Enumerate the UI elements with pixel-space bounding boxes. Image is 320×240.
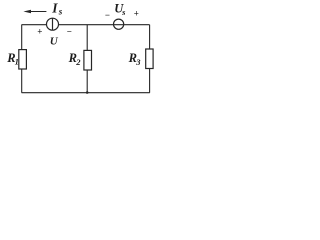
label R1 bbox=[6, 51, 19, 66]
label U (voltage across current source) bbox=[50, 36, 59, 48]
svg-text:s: s bbox=[58, 7, 63, 17]
wire bottom bbox=[22, 92, 150, 94]
label Us bbox=[114, 1, 126, 16]
current source Is circle bbox=[47, 18, 59, 30]
label + right of Us bbox=[134, 9, 139, 19]
current direction arrow for Is bbox=[23, 10, 46, 14]
svg-text:s: s bbox=[121, 7, 126, 17]
svg-text:−: − bbox=[105, 10, 110, 20]
label Is bbox=[51, 1, 63, 17]
label - left of Us bbox=[105, 10, 110, 20]
voltage source Us circle bbox=[114, 19, 124, 29]
label R2 bbox=[68, 51, 82, 67]
svg-text:3: 3 bbox=[135, 57, 141, 67]
label R3 bbox=[128, 51, 142, 67]
label - right of U (current source polarity) bbox=[67, 26, 72, 36]
wire top-left segment bbox=[22, 24, 47, 26]
resistor R2 body bbox=[84, 50, 92, 70]
svg-text:+: + bbox=[37, 26, 42, 36]
wire right vertical bbox=[149, 25, 151, 93]
resistor R3 body bbox=[146, 49, 153, 69]
wire left vertical bbox=[21, 25, 23, 93]
svg-text:I: I bbox=[51, 1, 58, 16]
svg-text:2: 2 bbox=[75, 57, 81, 67]
svg-text:−: − bbox=[67, 26, 72, 36]
svg-text:+: + bbox=[134, 9, 139, 19]
svg-text:1: 1 bbox=[15, 57, 19, 67]
resistor R1 body bbox=[19, 50, 27, 69]
junction dot bottom-middle node bbox=[86, 91, 89, 94]
wire top-middle segment bbox=[59, 24, 150, 26]
svg-text:U: U bbox=[50, 36, 59, 48]
label + left of U (current source polarity) bbox=[37, 26, 42, 36]
wire middle vertical bbox=[86, 25, 88, 93]
current source Is internal bar bbox=[52, 18, 54, 30]
